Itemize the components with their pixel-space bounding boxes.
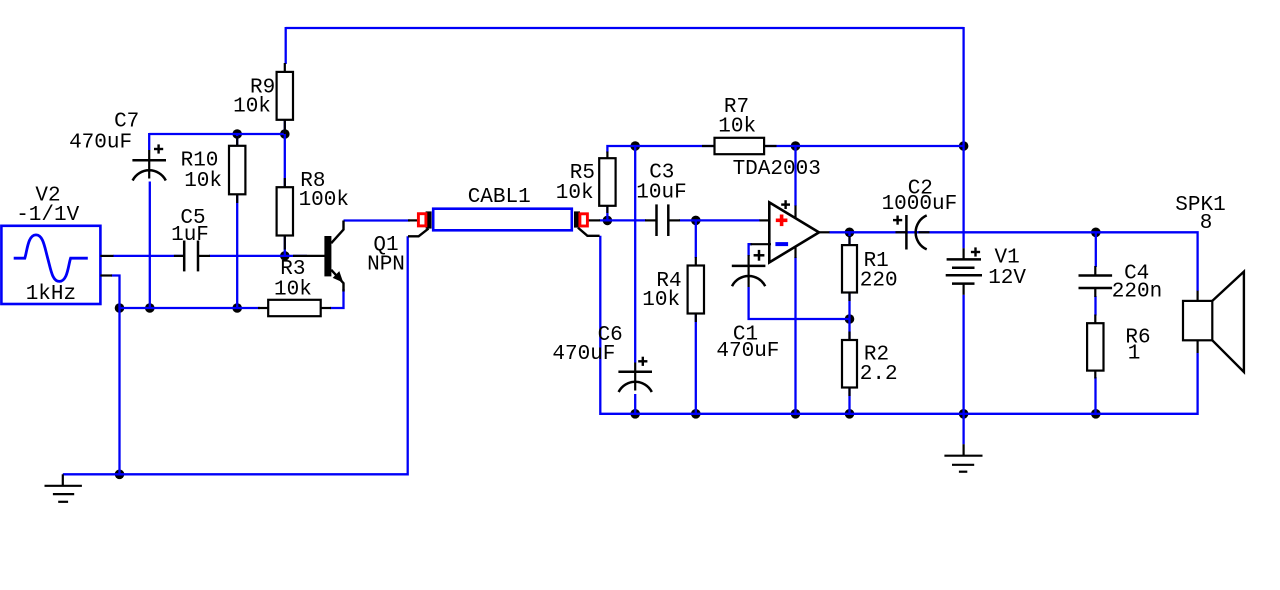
- wire left ground vertical: [118, 308, 120, 474]
- wire bottom rail amplifier section: [600, 236, 1197, 414]
- label R9: [250, 77, 275, 100]
- label C6: [598, 324, 623, 347]
- svg-text:10k: 10k: [233, 96, 271, 119]
- battery V1 plus sign: [971, 247, 980, 256]
- wire C3 to amp + input: [679, 219, 760, 221]
- source V2 box: [1, 226, 100, 304]
- wire V1 bottom to ground: [962, 295, 964, 444]
- wire C5 to Q1 base node: [209, 255, 307, 257]
- label R10: [181, 149, 219, 172]
- label V2: [35, 184, 60, 207]
- wire Q1 collector to cable: [344, 219, 411, 221]
- junction R2 bottom on ground rail: [845, 409, 855, 419]
- wire C1 bottom to R1/R2 node: [749, 287, 850, 319]
- resistor R1: [842, 236, 857, 301]
- label R3 value 10k: [274, 279, 312, 302]
- capacitor C1 plus sign: [754, 250, 765, 261]
- svg-text:CABL1: CABL1: [468, 186, 531, 209]
- wire TDA2003 ground pin lower: [794, 257, 796, 414]
- wire top rail down to V1 battery: [962, 27, 964, 248]
- wire C4 top lead: [1095, 232, 1097, 267]
- label R1 value 220: [860, 269, 898, 292]
- resistor R3: [258, 300, 331, 316]
- wire top rail down to R9: [285, 27, 287, 64]
- wire V2 lower terminal down: [111, 276, 120, 309]
- label C1 value 470uF: [716, 340, 779, 363]
- junction ground run left: [115, 470, 125, 480]
- wire amp inverting input to C1: [749, 244, 752, 256]
- label C7 value 470uF: [69, 131, 132, 154]
- wire R4 bottom lead: [695, 314, 697, 414]
- wire node R9/R10/C7 horizontal: [149, 133, 285, 135]
- wire C6 vertical from R7 node: [634, 146, 636, 363]
- cable CABL1 right shield diagonal: [578, 228, 600, 236]
- wire R1 top lead: [848, 232, 850, 246]
- label C3 value 10uF: [636, 182, 686, 205]
- cable CABL1 right connector block: [574, 211, 580, 227]
- svg-text:10k: 10k: [184, 170, 222, 193]
- label V1 value 12V: [988, 267, 1026, 290]
- wire bottom-left rail to R3: [120, 307, 261, 309]
- transistor Q1: [293, 221, 344, 292]
- svg-text:NPN: NPN: [367, 254, 405, 277]
- junction C7 bottom on input rail: [145, 303, 155, 313]
- label TDA2003: [733, 158, 821, 181]
- capacitor C7: [132, 150, 166, 181]
- wire C7 bottom to ground rail: [149, 182, 151, 309]
- wire R6 bottom lead: [1094, 377, 1096, 414]
- junction cable output / R5 bottom: [603, 216, 613, 226]
- label R1: [864, 250, 889, 273]
- label C1: [733, 323, 758, 346]
- svg-text:1kHz: 1kHz: [26, 283, 76, 306]
- svg-text:10k: 10k: [556, 182, 594, 205]
- junction V1 plus / R7 net: [959, 141, 969, 151]
- wire TDA2003 supply pin upper: [794, 146, 796, 206]
- junction R1/R2/C1 feedback node: [845, 314, 855, 324]
- svg-text:1uF: 1uF: [171, 224, 209, 247]
- source V2 upper terminal stub: [100, 255, 113, 257]
- label R2 value 2.2: [860, 363, 898, 386]
- wire C4 to R6: [1094, 296, 1096, 316]
- label R4 value 10k: [642, 289, 680, 312]
- label C7: [114, 111, 139, 134]
- junction TDA2003 supply pin on R7 net: [791, 141, 801, 151]
- svg-text:470uF: 470uF: [716, 340, 779, 363]
- label R7 value 10k: [718, 116, 756, 139]
- junction V1 minus / ground symbol: [959, 409, 969, 419]
- cable CABL1 right connector pin: [580, 214, 600, 226]
- label R4: [656, 270, 681, 293]
- svg-text:10k: 10k: [718, 116, 756, 139]
- wire R1 bottom lead: [848, 293, 850, 320]
- svg-text:1000uF: 1000uF: [882, 193, 958, 216]
- wire R5 bottom lead: [606, 206, 608, 221]
- label V1: [994, 247, 1019, 270]
- capacitor C4: [1079, 266, 1113, 297]
- label CABL1: [468, 186, 531, 209]
- label C4 value 220n: [1112, 281, 1162, 304]
- resistor R10: [229, 136, 245, 203]
- label R5: [570, 162, 595, 185]
- wire R3 to Q1 emitter: [330, 289, 344, 308]
- wire R4 top lead: [695, 220, 697, 258]
- junction amp output / R1 top: [845, 228, 855, 238]
- resistor R5: [599, 152, 615, 214]
- svg-text:100k: 100k: [299, 189, 349, 212]
- op-amp U1 noninverting input plus (red): [776, 215, 788, 227]
- svg-text:-1/1V: -1/1V: [16, 204, 79, 227]
- source V2 sine waveform: [14, 235, 88, 282]
- junction R10 bottom on input rail: [232, 303, 242, 313]
- svg-text:TDA2003: TDA2003: [733, 158, 821, 181]
- wire top supply rail: [286, 27, 964, 29]
- op-amp U1 TDA2003 triangle: [751, 202, 830, 262]
- label C2 value 1000uF: [882, 193, 958, 216]
- capacitor C1: [732, 255, 766, 287]
- wire amp output to R1 node: [829, 231, 850, 233]
- capacitor C2 plus sign: [893, 216, 902, 225]
- junction R9 bottom / R8 top node: [280, 129, 290, 139]
- cable CABL1 left connector block: [426, 211, 432, 228]
- svg-text:R10: R10: [181, 149, 219, 172]
- source V2 lower terminal stub: [100, 274, 112, 276]
- svg-text:10uF: 10uF: [636, 182, 686, 205]
- label R8 value 100k: [299, 189, 349, 212]
- label C4: [1124, 263, 1149, 286]
- label C5 value 1uF: [171, 224, 209, 247]
- wire R10 top lead: [236, 134, 238, 146]
- junction C4 top on output net: [1091, 228, 1101, 238]
- junction C3 right / R4 top: [691, 216, 701, 226]
- svg-text:10k: 10k: [642, 289, 680, 312]
- wire R2 bottom lead: [848, 388, 850, 414]
- battery V1: [946, 248, 982, 295]
- capacitor C2: [896, 215, 930, 250]
- wire C6 bottom lead: [634, 394, 636, 414]
- svg-text:12V: 12V: [988, 267, 1026, 290]
- label 1kHz: [26, 283, 76, 306]
- cable CABL1 body: [433, 209, 572, 231]
- label R7: [724, 96, 749, 119]
- label C5: [180, 207, 205, 230]
- wire R8 top lead: [284, 134, 286, 188]
- capacitor C7 plus sign: [154, 144, 163, 153]
- op-amp U1 inverting input minus (blue): [775, 242, 788, 246]
- op-amp U1 supply plus marker: [781, 200, 790, 209]
- wire R5 top corner / R7 supply run: [607, 146, 963, 153]
- resistor R2: [842, 332, 857, 397]
- wire cable right to C3: [599, 219, 646, 221]
- wire R9 bottom lead: [284, 120, 286, 134]
- resistor R6: [1087, 315, 1103, 379]
- svg-text:470uF: 470uF: [552, 343, 615, 366]
- wire V2 output to C5: [113, 255, 184, 257]
- wire R8 bottom lead: [284, 236, 286, 256]
- label R8: [300, 170, 325, 193]
- capacitor C6 plus sign: [638, 357, 647, 366]
- svg-text:220n: 220n: [1112, 281, 1162, 304]
- cable CABL1 left connector pin: [408, 214, 426, 226]
- label R6 value 1: [1128, 343, 1141, 366]
- label R3: [280, 258, 305, 281]
- capacitor C3: [645, 204, 680, 236]
- junction amp ground pin on ground rail: [791, 409, 801, 419]
- label SPK1 value 8: [1200, 212, 1213, 235]
- svg-text:220: 220: [860, 269, 898, 292]
- label R9 value 10k: [233, 96, 271, 119]
- label R2: [864, 343, 889, 366]
- wire R10 bottom lead: [236, 194, 238, 308]
- svg-text:2.2: 2.2: [860, 363, 898, 386]
- cable CABL1 left shield diagonal: [408, 229, 429, 237]
- svg-text:1: 1: [1128, 343, 1141, 366]
- junction C6 top on R7 net: [630, 141, 640, 151]
- svg-text:10k: 10k: [274, 279, 312, 302]
- capacitor C5: [174, 241, 210, 272]
- junction Q1 base node: [280, 251, 290, 261]
- resistor R8: [277, 178, 293, 250]
- speaker SPK1: [1183, 272, 1244, 372]
- junction C6 bottom on ground rail: [630, 409, 640, 419]
- ground symbol (power section): [944, 444, 982, 472]
- resistor R9: [277, 63, 293, 134]
- label Q1: [373, 234, 398, 257]
- junction R10 top / C7 node: [232, 129, 242, 139]
- label R10 value 10k: [184, 170, 222, 193]
- label -1/1V: [16, 204, 79, 227]
- wire ground run bottom-left: [63, 236, 408, 474]
- svg-text:470uF: 470uF: [69, 131, 132, 154]
- junction R4 bottom on ground rail: [691, 409, 701, 419]
- label C6 value 470uF: [552, 343, 615, 366]
- label Q1 type NPN: [367, 254, 405, 277]
- resistor R7: [702, 138, 777, 154]
- wire C7 top lead: [148, 133, 150, 150]
- resistor R4: [688, 257, 704, 322]
- label C3: [649, 162, 674, 185]
- junction V2 return / ground riser: [115, 303, 125, 313]
- capacitor C6: [618, 363, 652, 393]
- label R5 value 10k: [556, 182, 594, 205]
- label SPK1: [1175, 194, 1225, 217]
- junction R6 bottom on ground rail: [1091, 409, 1101, 419]
- label R6: [1125, 326, 1150, 349]
- svg-text:8: 8: [1200, 212, 1213, 235]
- wire output run to speaker: [850, 232, 1198, 291]
- wire R2 top lead: [848, 319, 850, 341]
- svg-text:C7: C7: [114, 111, 139, 134]
- label C2: [908, 178, 933, 201]
- ground symbol (input section): [45, 474, 82, 502]
